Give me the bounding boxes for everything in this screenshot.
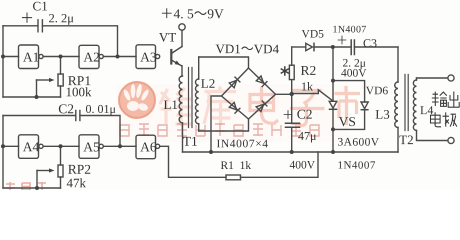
svg-text:R1 1k: R1 1k — [220, 160, 251, 172]
svg-text:C3: C3 — [363, 36, 377, 50]
svg-text:VD5: VD5 — [302, 29, 325, 41]
svg-text:VD1〜VD4: VD1〜VD4 — [216, 41, 280, 56]
svg-text:＋: ＋ — [336, 34, 348, 48]
svg-text:A3: A3 — [140, 50, 157, 65]
svg-text:T2: T2 — [399, 132, 413, 147]
svg-text:L3: L3 — [375, 107, 389, 122]
svg-text:400V: 400V — [341, 68, 367, 80]
svg-text:R2: R2 — [301, 63, 317, 78]
svg-text:＋: ＋ — [282, 108, 294, 122]
svg-text:L1: L1 — [163, 97, 177, 112]
svg-text:A4: A4 — [23, 139, 40, 154]
svg-text:A5: A5 — [83, 139, 100, 154]
svg-text:2. 2μ: 2. 2μ — [49, 11, 75, 25]
svg-text:A6: A6 — [140, 139, 157, 154]
svg-text:A2: A2 — [83, 50, 100, 65]
svg-text:C1: C1 — [33, 0, 48, 13]
svg-text:C2: C2 — [58, 101, 74, 116]
svg-text:IN4007×4: IN4007×4 — [216, 138, 268, 150]
svg-text:L2: L2 — [201, 76, 215, 91]
svg-text:3A600V: 3A600V — [337, 137, 379, 149]
svg-text:VS: VS — [339, 114, 356, 129]
svg-text:VT: VT — [159, 30, 176, 45]
svg-text:VD6: VD6 — [366, 85, 389, 97]
svg-text:1k: 1k — [301, 79, 313, 93]
svg-text:100k: 100k — [65, 84, 92, 99]
svg-text:400V: 400V — [289, 160, 315, 172]
svg-text:C2: C2 — [297, 107, 313, 122]
svg-text:A1: A1 — [23, 49, 40, 64]
svg-text:T1: T1 — [183, 134, 198, 149]
svg-text:47k: 47k — [66, 175, 86, 190]
svg-text:1N4007: 1N4007 — [337, 160, 375, 172]
svg-text:0. 01μ: 0. 01μ — [85, 102, 115, 116]
svg-text:47μ: 47μ — [298, 129, 316, 143]
svg-text:＋: ＋ — [20, 12, 34, 27]
svg-text:＋4. 5〜9V: ＋4. 5〜9V — [160, 6, 224, 21]
